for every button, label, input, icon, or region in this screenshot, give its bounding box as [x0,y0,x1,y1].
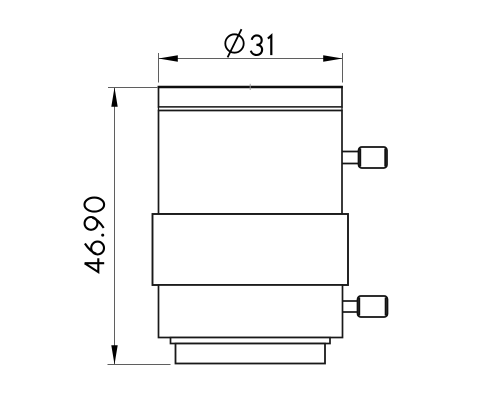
center tick mark [249,84,251,90]
height dimension line [114,88,116,365]
lower thumbscrew shaft [343,300,358,302]
lens top bezel ring [159,87,343,107]
upper barrel [159,111,343,215]
height dimension extension line top [108,87,157,89]
diameter dimension arrow left [159,55,178,61]
upper thumbscrew shaft [342,151,359,153]
diameter dimension extension line right [342,53,344,83]
mount flange [176,344,326,364]
lower barrel [159,285,343,338]
top edge thick line [158,86,343,89]
diameter dimension extension line left [158,53,160,83]
height dimension arrow top [111,88,117,107]
bezel seam ring [159,107,343,111]
diameter dimension arrow right [323,55,342,61]
height value 46.90 [85,198,105,273]
step ring [171,338,331,344]
diameter value 31 [251,35,271,55]
diameter symbol [225,34,243,52]
lower thumbscrew knob [358,296,388,317]
height dimension arrow bottom [111,345,117,364]
diameter dimension line [159,58,343,60]
height dimension extension line bottom [108,364,171,366]
focus ring (wide) [153,214,349,285]
upper thumbscrew knob [359,147,388,168]
